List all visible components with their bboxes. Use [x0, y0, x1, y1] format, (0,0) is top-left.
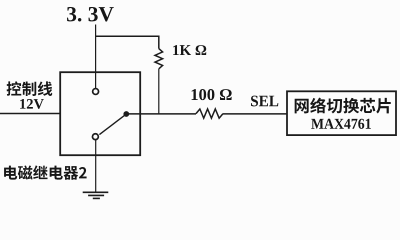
- wire: junction to resistor R2: [126, 113, 196, 115]
- resistor R1 1K ohm vertical zigzag: [155, 49, 163, 69]
- ground symbol (three bars): [83, 192, 109, 198]
- wire: R1 bottom lead down to SEL node: [158, 69, 160, 114]
- relay K2 outline box (electromagnetic relay 2): [60, 72, 140, 155]
- net label: 3.3V supply: [67, 7, 114, 22]
- relay lower contact circle (to ground): [92, 134, 98, 140]
- label: electromagnetic relay 2 (dianci jidianqi 2): [4, 165, 87, 179]
- wire: relay common contact down to ground: [95, 140, 97, 193]
- wire: 12V control line into relay: [0, 113, 60, 115]
- label: control line (kongzhixian): [7, 81, 53, 96]
- wire: R2 to MAX4761 SEL pin: [223, 113, 287, 115]
- relay switch arm from lower contact to output junction: [99, 114, 125, 134]
- node: solder junction dot on SEL output: [123, 111, 129, 117]
- IC U1 MAX4761 network switching chip box: [287, 91, 396, 135]
- label: MAX4761 part number: [311, 119, 371, 129]
- net label: SEL: [251, 96, 278, 107]
- value label: 1K ohm for R1: [173, 45, 206, 55]
- label: network switching chip (wangluo qiehuan xinpian): [295, 98, 391, 114]
- label: 12V control voltage: [20, 99, 44, 109]
- resistor R2 100 ohm horizontal zigzag: [196, 109, 223, 118]
- wire: 3.3V branch horizontal and down to resistor R1 top lead: [96, 36, 159, 48]
- relay upper contact circle (from 3.3V): [93, 89, 99, 95]
- wire: 3.3V rail vertical down to relay upper contact: [95, 25, 97, 89]
- value label: 100 ohm for R2: [192, 89, 232, 100]
